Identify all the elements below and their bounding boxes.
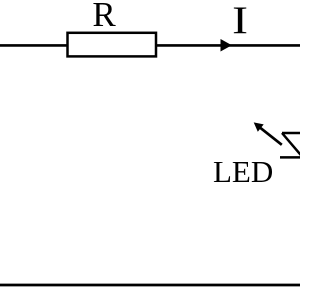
svg-text:LED: LED: [213, 154, 273, 189]
current arrowhead I: [221, 40, 231, 51]
svg-text:I: I: [232, 0, 248, 42]
resistor R: [68, 33, 157, 57]
wire (bottom return): [0, 284, 300, 287]
LED cathode bar: [280, 156, 303, 159]
svg-text:R: R: [92, 0, 116, 34]
LED light-emission arrow: [254, 122, 282, 144]
wire (top-left segment into resistor): [0, 44, 68, 47]
LED diode triangle (partially cut at right edge): [282, 133, 303, 157]
wire (resistor to right edge): [156, 44, 300, 47]
